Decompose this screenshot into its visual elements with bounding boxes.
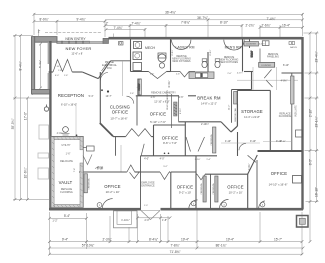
svg-text:NEW FIXTURES: NEW FIXTURES	[172, 60, 190, 63]
svg-text:4'-0": 4'-0"	[160, 158, 165, 161]
storage nw corner	[232, 89, 252, 91]
corridor wall under closing office	[113, 136, 126, 138]
reception/closing wall	[99, 72, 101, 123]
top dimension row 3	[105, 25, 242, 27]
svg-text:NEW FIXTURES: NEW FIXTURES	[220, 61, 238, 64]
svg-text:6'-8¾": 6'-8¾"	[209, 49, 212, 55]
top dimension row 2	[34, 20, 105, 22]
door arcs along south wall	[102, 199, 112, 209]
toilets	[202, 61, 207, 67]
closing office diagonal wall	[100, 123, 113, 136]
office A east wall pair	[171, 94, 173, 128]
svg-text:8'-10": 8'-10"	[280, 141, 286, 143]
porch thick top-left block	[34, 37, 57, 43]
svg-text:8'-9¾": 8'-9¾"	[39, 17, 48, 21]
ladies door arc	[172, 40, 191, 50]
NE room shelf strip	[291, 76, 294, 104]
mens door arc	[224, 40, 244, 50]
fixtures right wall office	[293, 176, 302, 184]
office A west wall	[136, 96, 138, 126]
svg-text:2'-2¾": 2'-2¾"	[245, 24, 254, 28]
svg-text:6'-3¾": 6'-3¾"	[168, 80, 171, 87]
svg-text:10'-2" x 10': 10'-2" x 10'	[229, 191, 243, 195]
svg-text:OFFICE: OFFICE	[271, 171, 288, 176]
svg-text:5'-4¾": 5'-4¾"	[38, 60, 42, 68]
svg-text:4'-0¾": 4'-0¾"	[248, 163, 251, 170]
svg-text:7'-8¾": 7'-8¾"	[170, 244, 179, 248]
column detail symbol bottom right	[297, 216, 309, 228]
bottom dimension rows	[50, 217, 87, 219]
foyer south wall right segment	[72, 71, 82, 73]
svg-text:8'-4¾": 8'-4¾"	[19, 61, 23, 70]
svg-text:CREDENZA: CREDENZA	[210, 134, 213, 146]
svg-text:4'-10": 4'-10"	[225, 140, 231, 143]
svg-text:16'-10": 16'-10"	[315, 187, 319, 197]
svg-text:FLOORING: FLOORING	[60, 191, 73, 194]
NE vertical wall	[291, 74, 293, 151]
office B door	[186, 137, 191, 152]
svg-text:REMOVE CABINETRY: REMOVE CABINETRY	[151, 92, 176, 95]
mech equipment	[134, 42, 142, 49]
top dimension row 1 (overall)	[34, 13, 303, 15]
svg-text:OFFICE: OFFICE	[227, 185, 244, 190]
NE big office diagonal + closet	[248, 155, 258, 175]
svg-text:PANELING: PANELING	[267, 56, 279, 59]
storage door arc	[239, 143, 246, 150]
svg-text:MEN'S RM: MEN'S RM	[225, 46, 242, 50]
svg-text:1'-8": 1'-8"	[162, 219, 167, 222]
vault walls (hatched)	[51, 136, 84, 207]
svg-text:2'-10¾": 2'-10¾"	[201, 123, 209, 126]
svg-text:2'-6": 2'-6"	[179, 96, 184, 99]
svg-text:2'-6": 2'-6"	[130, 93, 134, 95]
phone rm diagonal west wall	[98, 61, 110, 79]
svg-text:7'-4¾": 7'-4¾"	[266, 17, 275, 21]
svg-text:FLOORING: FLOORING	[279, 115, 292, 118]
extension line corridor	[120, 145, 122, 172]
storage cabinet strip	[234, 92, 237, 105]
right exterior wall	[301, 37, 303, 210]
svg-text:23'-1¾": 23'-1¾"	[315, 117, 319, 128]
NE wall y73	[282, 72, 303, 74]
svg-text:86'-1¾": 86'-1¾"	[216, 244, 227, 248]
svg-text:8'-10": 8'-10"	[283, 64, 289, 67]
svg-text:REMOVE CABINETRY: REMOVE CABINETRY	[166, 90, 169, 110]
svg-text:VAULT: VAULT	[59, 180, 73, 185]
svg-text:10'-7": 10'-7"	[106, 95, 112, 98]
corridor south walls (office row)	[79, 171, 127, 173]
svg-text:4'-8¾": 4'-8¾"	[237, 72, 243, 75]
office A south wall	[154, 124, 186, 126]
svg-text:2': 2'	[106, 22, 109, 26]
dim line over storage	[237, 79, 298, 81]
left dimension column	[14, 36, 16, 201]
phone rm door leaf	[102, 62, 109, 71]
svg-text:NEW FOYER: NEW FOYER	[65, 46, 91, 51]
stor arrow at corridor	[95, 167, 99, 169]
svg-text:8'-4¾": 8'-4¾"	[149, 237, 158, 241]
office row vertical walls	[140, 156, 142, 209]
svg-text:9'-4": 9'-4"	[62, 237, 68, 241]
svg-text:RELOCATE: RELOCATE	[60, 160, 73, 163]
svg-text:14'-8" x 12'-2": 14'-8" x 12'-2"	[201, 102, 217, 106]
foyer south wall left stub	[49, 71, 54, 73]
svg-text:7'-4¾": 7'-4¾"	[113, 26, 122, 30]
svg-text:STOR: STOR	[97, 167, 104, 170]
storage west wall	[236, 90, 238, 126]
employee entrance double door X	[141, 211, 160, 220]
break rm south wall	[178, 121, 221, 123]
svg-text:5'-10" x 7'-6": 5'-10" x 7'-6"	[150, 120, 166, 124]
svg-text:NEW ENTRY: NEW ENTRY	[65, 37, 86, 41]
svg-text:R.M.: R.M.	[107, 67, 112, 70]
svg-text:1'-6": 1'-6"	[64, 75, 69, 77]
svg-text:CREDENZA: CREDENZA	[200, 183, 203, 195]
svg-text:7'-8¾": 7'-8¾"	[181, 20, 190, 24]
bottom exterior wall left of door	[49, 208, 141, 211]
svg-text:OFFICE: OFFICE	[112, 109, 129, 114]
svg-text:35'-5¾": 35'-5¾"	[11, 119, 15, 130]
svg-text:71'-8¾": 71'-8¾"	[170, 250, 181, 254]
svg-text:6'-8¾": 6'-8¾"	[171, 49, 174, 55]
svg-text:10'-6¾": 10'-6¾"	[24, 168, 28, 179]
svg-text:2'-6": 2'-6"	[176, 74, 181, 76]
diagonal wall to reception	[82, 72, 98, 79]
svg-text:36'-4¾": 36'-4¾"	[165, 10, 176, 14]
svg-text:16'-4": 16'-4"	[282, 24, 290, 28]
svg-text:5'-4": 5'-4"	[89, 95, 94, 98]
svg-text:6'-10" x 16'-0": 6'-10" x 16'-0"	[61, 102, 77, 106]
credenza strips in south offices	[84, 174, 87, 193]
door tags	[97, 203, 102, 208]
vault hatch ticks	[52, 138, 82, 208]
svg-text:BREAK RM: BREAK RM	[197, 96, 221, 101]
svg-text:7'-4": 7'-4"	[74, 168, 76, 173]
porch inner wall line upper	[47, 43, 49, 64]
plant closet strip	[138, 79, 141, 95]
entry recessed door section	[90, 42, 104, 44]
svg-text:5'-2": 5'-2"	[163, 166, 168, 168]
office B west door V	[141, 144, 144, 156]
vault door double V	[83, 155, 92, 165]
svg-text:8'-10": 8'-10"	[220, 20, 228, 24]
svg-text:4'-8¾": 4'-8¾"	[281, 80, 288, 83]
svg-text:1'-10¾": 1'-10¾"	[121, 219, 130, 222]
window boxes outside left wall	[39, 125, 49, 139]
wall between phone rm and mech	[130, 39, 132, 72]
svg-text:6'-0": 6'-0"	[55, 75, 60, 77]
mens east wall	[242, 39, 244, 72]
svg-text:REMOVE CAB: REMOVE CAB	[234, 108, 237, 122]
porch outer left wall	[32, 37, 35, 94]
svg-text:14'-10" x 16'-6": 14'-10" x 16'-6"	[269, 183, 288, 187]
svg-text:2'-6": 2'-6"	[227, 73, 232, 75]
svg-text:12'-2": 12'-2"	[228, 104, 230, 110]
svg-text:COUNTER: COUNTER	[261, 65, 271, 67]
svg-text:6'-8¾": 6'-8¾"	[179, 108, 182, 114]
svg-text:2': 2'	[38, 30, 41, 34]
svg-text:2'-6": 2'-6"	[151, 96, 156, 99]
porch bottom wall	[32, 90, 52, 95]
svg-text:LADIES' RM: LADIES' RM	[176, 46, 195, 50]
svg-text:RECEPTION: RECEPTION	[58, 93, 84, 98]
phone rm south wall	[111, 60, 131, 62]
svg-text:4'-0¾": 4'-0¾"	[57, 132, 64, 135]
svg-text:2'-10": 2'-10"	[309, 109, 313, 117]
double doors at corridor	[126, 129, 152, 137]
svg-text:57'-10¾": 57'-10¾"	[82, 244, 95, 248]
svg-text:15'-7": 15'-7"	[274, 237, 282, 241]
svg-text:CREDENZA: CREDENZA	[88, 178, 91, 190]
svg-text:36'-7¾": 36'-7¾"	[197, 16, 208, 20]
exterior top wall (main)	[109, 37, 303, 40]
door tag tick at entry	[113, 34, 115, 39]
svg-text:2'-6": 2'-6"	[150, 74, 155, 76]
hall door V	[180, 72, 189, 78]
corridor west wall	[115, 136, 117, 156]
reception counter	[63, 127, 69, 133]
svg-text:4'-0": 4'-0"	[144, 158, 149, 161]
door swings on office row	[127, 165, 135, 172]
office B left wall	[153, 125, 155, 156]
svg-text:9'-6" x 7'-6": 9'-6" x 7'-6"	[163, 141, 177, 145]
junction dot reception/closing	[107, 90, 109, 92]
svg-text:COUNTER: COUNTER	[246, 44, 256, 46]
wall y95 north of office A	[136, 95, 179, 97]
svg-text:8'-5": 8'-5"	[309, 159, 313, 165]
svg-text:1'-2": 1'-2"	[52, 219, 57, 223]
extension line closet	[122, 62, 124, 97]
svg-text:19'-4": 19'-4"	[226, 237, 234, 241]
svg-text:1'-6": 1'-6"	[66, 153, 71, 156]
svg-text:5'-4": 5'-4"	[64, 214, 70, 218]
top dimension row 4	[106, 29, 145, 31]
main left wall	[49, 41, 51, 209]
wall light fixture left	[44, 107, 48, 111]
svg-text:19'-4": 19'-4"	[181, 237, 189, 241]
ladies/mens dividing wall	[207, 52, 209, 74]
interior dim lines	[263, 141, 292, 143]
svg-text:7'-4¾": 7'-4¾"	[131, 22, 140, 26]
mech/ladies wall	[170, 39, 172, 72]
counter room (NE)	[244, 42, 259, 47]
svg-text:2'-6¾": 2'-6¾"	[261, 24, 270, 28]
svg-text:UTILITY: UTILITY	[62, 144, 71, 147]
entry double door swings (M)	[53, 60, 72, 73]
small leader at porch top	[38, 29, 40, 36]
right dimension column	[309, 33, 311, 242]
svg-text:10'-2" x 10': 10'-2" x 10'	[106, 190, 120, 194]
break rm east wall top	[244, 71, 253, 73]
mech south wall + door V	[131, 71, 149, 73]
svg-text:2'-0": 2'-0"	[145, 219, 150, 222]
svg-text:MECH: MECH	[145, 46, 156, 50]
svg-text:1'-0": 1'-0"	[144, 205, 148, 207]
porch inner wall line lower	[47, 73, 49, 90]
svg-text:CREDENZA: CREDENZA	[212, 183, 215, 195]
lavatory counter band	[189, 72, 214, 79]
svg-text:10'-7" x 16'-6": 10'-7" x 16'-6"	[110, 117, 127, 121]
stoop at employee entrance	[114, 211, 138, 228]
svg-text:12'-6" x 8': 12'-6" x 8'	[71, 52, 83, 56]
svg-text:4'-8¾": 4'-8¾"	[259, 43, 265, 46]
storage ne chamfer door	[264, 70, 271, 79]
svg-text:INSULATE: INSULATE	[295, 105, 298, 117]
storage north wall	[237, 89, 270, 91]
svg-text:9'-4¾": 9'-4¾"	[76, 17, 85, 21]
svg-text:1'-4": 1'-4"	[206, 159, 211, 161]
svg-text:11'-4" x 21'-8": 11'-4" x 21'-8"	[244, 115, 260, 119]
porch face dash line	[32, 38, 34, 95]
svg-text:OFFICE: OFFICE	[104, 184, 121, 189]
storage inner walls	[258, 150, 303, 152]
svg-text:OFFICE: OFFICE	[177, 185, 194, 190]
entry left wall band	[57, 41, 90, 43]
svg-text:2'-10": 2'-10"	[195, 159, 201, 161]
svg-text:ENTRANCE: ENTRANCE	[141, 185, 155, 188]
entry pier	[103, 38, 109, 43]
entry canopy dashed line	[45, 31, 101, 33]
svg-text:23'-4¾": 23'-4¾"	[315, 52, 319, 63]
svg-text:BACKS: BACKS	[290, 46, 297, 49]
svg-text:1'-6": 1'-6"	[58, 70, 63, 72]
svg-text:STORAGE: STORAGE	[241, 109, 263, 114]
svg-text:OFFICE: OFFICE	[150, 111, 167, 116]
credenza strip right of office B	[213, 127, 216, 153]
office B south wall	[141, 155, 218, 157]
svg-text:OFFICE: OFFICE	[162, 135, 179, 140]
svg-text:5'-1¾": 5'-1¾"	[250, 51, 253, 57]
svg-text:2'-3¾": 2'-3¾"	[102, 237, 111, 241]
svg-text:9'-10": 9'-10"	[250, 140, 256, 143]
storage east wall	[269, 90, 271, 150]
wall fixture on top wall	[119, 42, 124, 46]
bottom exterior wall right of door	[161, 208, 304, 211]
chamfer at storage corridor	[221, 122, 231, 132]
svg-text:17'-0": 17'-0"	[24, 112, 28, 120]
svg-text:9'-2" x 10': 9'-2" x 10'	[179, 191, 192, 195]
